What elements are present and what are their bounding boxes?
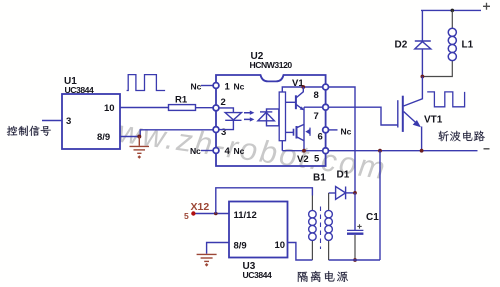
- inductor L1: [422, 10, 452, 76]
- node L1 top junction: [451, 9, 455, 13]
- wire bottom supply rail: [329, 259, 380, 261]
- wire X12 to U3 pin11/12: [196, 213, 230, 215]
- junction dot: [137, 135, 141, 139]
- junction rail to bottom supply: [378, 149, 382, 153]
- LED inside U2: [219, 108, 233, 113]
- wire U3 pin10 to B1 primary bottom: [288, 243, 313, 261]
- node 隔离电源 text: [298, 272, 308, 282]
- wire control signal input: [42, 120, 62, 122]
- wire pin7 to VT1 gate: [329, 107, 398, 125]
- svg-text:11/12: 11/12: [234, 210, 257, 221]
- svg-text:UC3844: UC3844: [65, 85, 95, 95]
- junction V2 emitter to pin5 wire: [302, 149, 306, 153]
- svg-text:UC3844: UC3844: [243, 270, 273, 280]
- wire to pin7: [304, 106, 322, 108]
- junction dot V1 collector: [301, 85, 305, 89]
- junction X12 wire to B1 primary branch: [214, 212, 218, 216]
- diode D2: [421, 10, 423, 41]
- svg-text:8: 8: [314, 90, 319, 101]
- junction D2/L1 bottom: [421, 75, 425, 79]
- resistor R1: [169, 105, 196, 111]
- transistor V1: [286, 101, 296, 103]
- svg-text:7: 7: [314, 111, 319, 122]
- transistor V2: [286, 131, 294, 133]
- transistor VT1 IGBT: [404, 77, 423, 107]
- junction D1 cathode / C1 / Vcc node: [353, 191, 357, 195]
- minus terminal: [484, 148, 490, 150]
- svg-text:2: 2: [221, 97, 226, 108]
- svg-text:Nc: Nc: [234, 146, 245, 156]
- junction VT1 emitter on negative rail: [420, 149, 424, 153]
- svg-text:8/9: 8/9: [97, 132, 110, 143]
- svg-text:10: 10: [275, 240, 286, 251]
- U2 pin 4 circle: [213, 148, 219, 154]
- ground (U1): [130, 137, 150, 154]
- diode D1: [329, 192, 336, 194]
- transformer B1: [312, 193, 328, 260]
- svg-text:D1: D1: [337, 170, 350, 181]
- svg-text:5: 5: [314, 153, 320, 164]
- U2 pin 5 circle: [323, 148, 329, 154]
- wire U3 pin8/9 to ground: [207, 243, 229, 254]
- svg-text:3: 3: [221, 127, 226, 138]
- IC U3: [229, 202, 288, 258]
- wire U1 pin8/9 to U2 pin3: [120, 130, 213, 137]
- svg-text:VT1: VT1: [424, 115, 443, 126]
- svg-text:10: 10: [104, 103, 115, 114]
- V1/V2 output vertical: [303, 107, 305, 151]
- svg-text:3: 3: [66, 116, 71, 127]
- svg-text:6: 6: [318, 131, 323, 142]
- photodiode inside U2: [267, 109, 279, 126]
- svg-text:5: 5: [184, 211, 189, 221]
- ground (U3): [197, 254, 217, 261]
- svg-text:X12: X12: [191, 201, 210, 213]
- capacitor C1: [354, 193, 356, 230]
- node 控制信号 text: [7, 126, 17, 136]
- wire V2 bottom to pin5: [282, 141, 322, 151]
- svg-text:B1: B1: [313, 173, 326, 184]
- light arrows: [244, 113, 250, 120]
- junction C1 negative on bottom wire: [353, 258, 357, 262]
- wire pin5 negative rail: [329, 150, 478, 152]
- node X12 terminal: [191, 211, 195, 215]
- U2 pin 6 circle: [323, 127, 329, 133]
- transformer B1 primary and secondary coil turns: [309, 210, 317, 218]
- U2 pin 1 circle: [213, 83, 219, 89]
- waveform at VT1: [427, 92, 464, 107]
- Nc stub pin4: [201, 150, 213, 152]
- wire pin8 to supply node: [329, 87, 355, 193]
- svg-text:Nc: Nc: [234, 82, 245, 92]
- inductor L1 coil turns: [448, 28, 456, 36]
- node 斩波电路 text: [438, 131, 449, 142]
- U2 pin 2 circle: [213, 105, 219, 111]
- op-amp U2 optocoupler body: [216, 75, 326, 166]
- svg-text:Nc: Nc: [190, 146, 201, 156]
- U2 pin 7 circle: [323, 104, 329, 110]
- svg-text:C1: C1: [366, 212, 379, 223]
- Nc stub pin6: [329, 129, 338, 131]
- IC U1: [62, 94, 120, 149]
- wire R1 to U2 pin2: [196, 107, 213, 109]
- svg-text:D2: D2: [395, 40, 408, 51]
- wire positive rail: [421, 9, 481, 11]
- plus terminal: [483, 3, 490, 10]
- svg-text:V2: V2: [297, 154, 309, 165]
- wire U1 pin10 to R1: [120, 107, 169, 109]
- U2 pin 8 circle: [323, 84, 329, 90]
- svg-text:Nc: Nc: [341, 127, 352, 137]
- driver block inside U2: [279, 92, 285, 141]
- U2 pin 3 circle: [213, 127, 219, 133]
- svg-text:Nc: Nc: [191, 82, 202, 92]
- svg-text:R1: R1: [175, 95, 188, 106]
- waveform at U1 output: [127, 75, 166, 91]
- wire block top to pin8: [282, 87, 322, 92]
- svg-text:8/9: 8/9: [234, 241, 247, 252]
- svg-text:1: 1: [225, 82, 231, 93]
- svg-text:HCNW3120: HCNW3120: [250, 60, 293, 70]
- wire X12 up and over to B1 primary: [216, 188, 313, 214]
- Nc stub pin1: [201, 85, 213, 87]
- svg-text:4: 4: [225, 146, 231, 157]
- svg-text:L1: L1: [462, 40, 474, 51]
